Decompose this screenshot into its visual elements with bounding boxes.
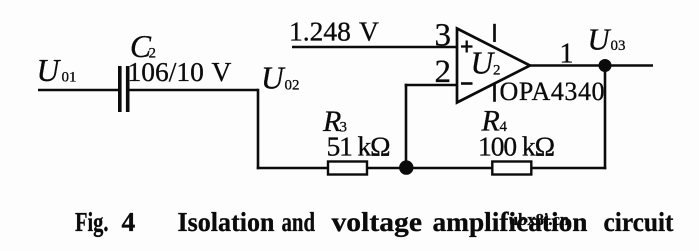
capacitor C2 (120, 66, 128, 112)
wire 1.248 V to pin 3 (292, 46, 457, 49)
svg-text:V: V (359, 16, 379, 47)
op-amp power pin ticks (493, 24, 496, 102)
svg-text:Isolation: Isolation (178, 206, 275, 237)
resistor R3 body (328, 162, 367, 175)
svg-text:U: U (261, 61, 286, 96)
svg-text:and: and (282, 206, 316, 237)
svg-text:U: U (588, 23, 612, 57)
svg-text:2: 2 (435, 54, 452, 90)
svg-text:U: U (37, 53, 62, 88)
svg-text:106/10: 106/10 (128, 56, 204, 87)
wire right vertical feedback (604, 65, 607, 170)
svg-text:100 kΩ: 100 kΩ (478, 130, 555, 161)
wire R3 to junction (367, 167, 406, 170)
svg-text:V: V (212, 56, 232, 87)
wire inverting input pin 2 (405, 84, 457, 87)
svg-text:4: 4 (122, 206, 136, 237)
svg-text:1: 1 (560, 39, 574, 70)
svg-text:U: U (471, 46, 496, 81)
wire output pin 1 (529, 64, 653, 67)
wire bottom left segment (257, 167, 328, 170)
svg-text:circuit: circuit (604, 206, 675, 237)
op-amp U2 triangle (457, 29, 530, 103)
wire U02 vertical drop (257, 89, 260, 170)
svg-text:ubx8i.cn: ubx8i.cn (509, 210, 569, 229)
svg-text:OPA4340: OPA4340 (500, 77, 605, 106)
wire R4 to right corner (532, 167, 607, 170)
node output dot U03 (599, 59, 612, 72)
op-amp minus sign (461, 82, 473, 85)
op-amp plus sign (461, 41, 473, 53)
svg-text:1.248: 1.248 (289, 16, 351, 47)
svg-text:voltage: voltage (332, 206, 423, 237)
svg-text:01: 01 (62, 70, 77, 86)
resistor R4 body (492, 162, 531, 175)
wire junction up to inverting input (405, 84, 408, 170)
node junction dot at R3/R4 (399, 160, 413, 174)
svg-text:03: 03 (611, 38, 626, 54)
wire junction to R4 (406, 167, 492, 170)
wire capacitor to U02 corner (130, 89, 259, 92)
svg-text:51 kΩ: 51 kΩ (327, 130, 391, 161)
svg-text:Fig.: Fig. (75, 206, 109, 237)
svg-text:02: 02 (285, 78, 300, 94)
svg-text:3: 3 (435, 18, 452, 54)
wire input lead U01 (38, 89, 118, 92)
